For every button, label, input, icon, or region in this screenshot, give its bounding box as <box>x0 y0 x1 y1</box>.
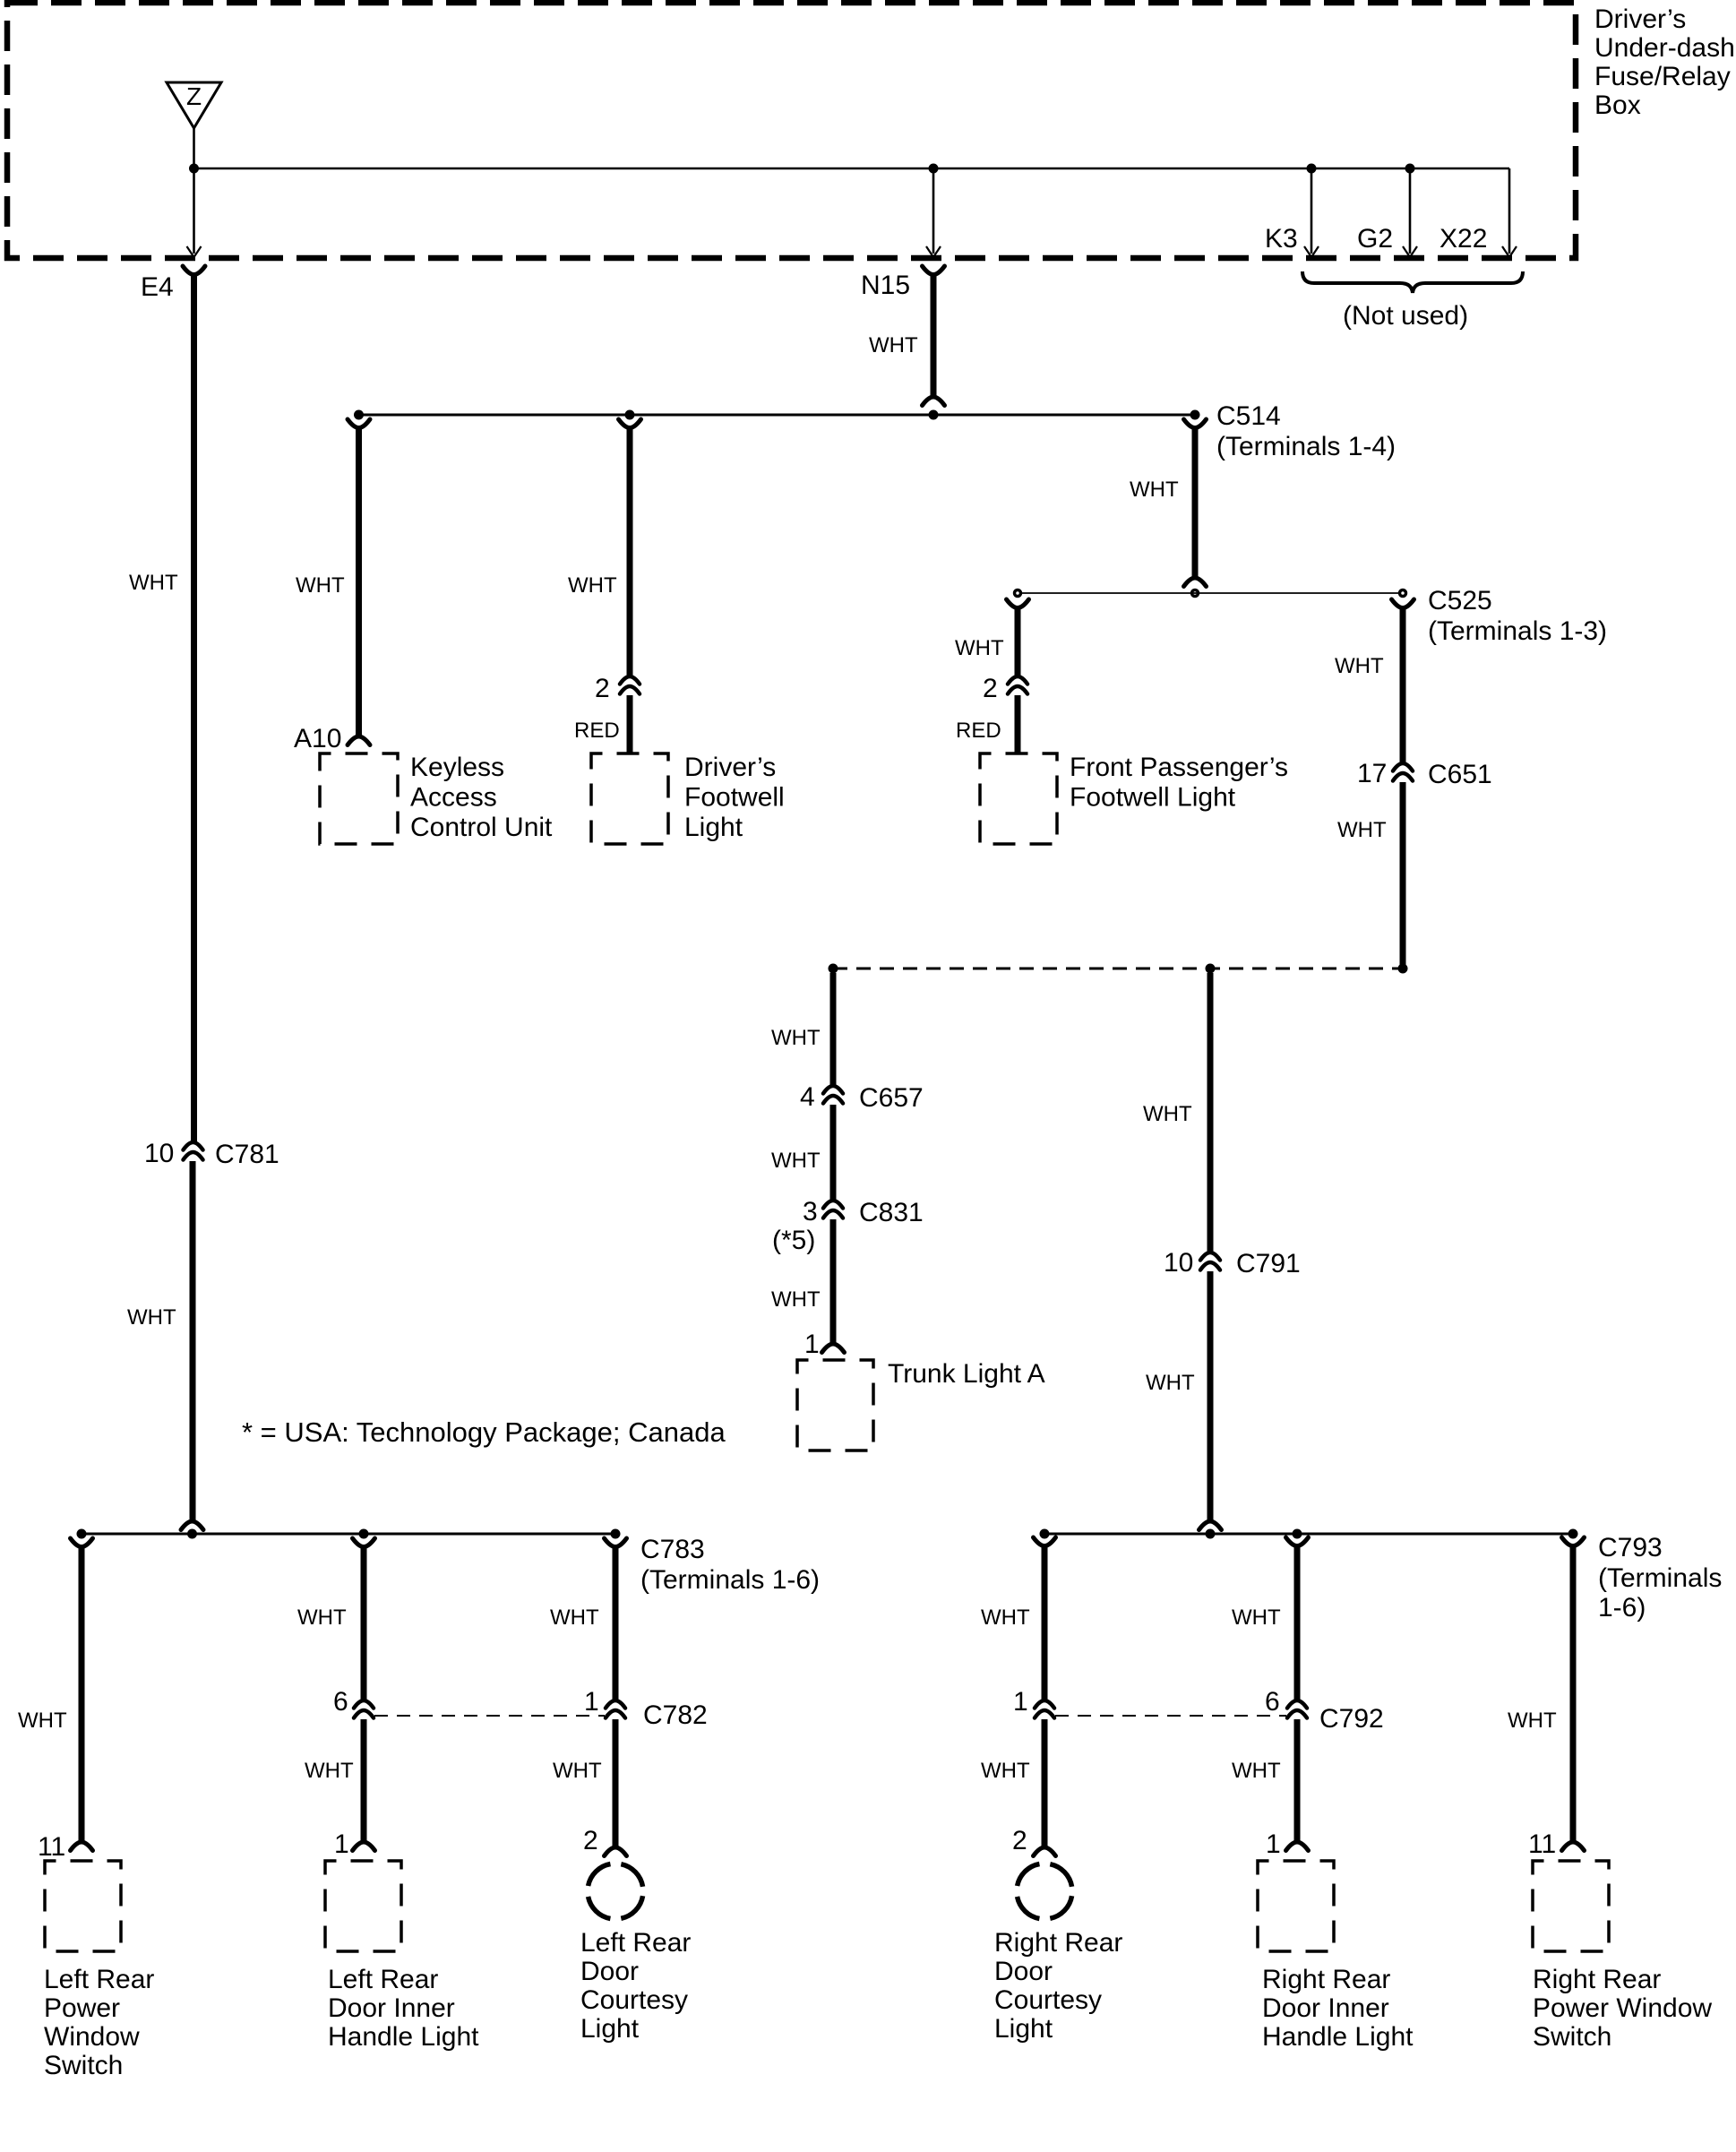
wire RRDIH upper (WHT) <box>1294 1546 1301 1700</box>
wire color label WHT (driver footwell) <box>568 573 617 598</box>
bus wire C783 <box>82 1533 615 1536</box>
svg-text:Under-dash: Under-dash <box>1594 33 1735 63</box>
svg-text:C791: C791 <box>1236 1249 1301 1278</box>
wire color label WHT (trunk 3) <box>771 1287 821 1312</box>
node: junction dot C651 at splice bus <box>1398 964 1408 974</box>
wire color label WHT (LRDC upper) <box>550 1605 599 1630</box>
pin label 2 (LRDC) <box>583 1826 598 1855</box>
svg-text:WHT: WHT <box>297 1605 347 1630</box>
component box Left Rear Power Window Switch <box>45 1861 121 1951</box>
wire color label WHT (E4 upper) <box>129 571 178 595</box>
svg-text:6: 6 <box>1265 1687 1280 1717</box>
svg-text:Light: Light <box>994 2014 1053 2044</box>
wire color label WHT (LRDIH lower) <box>305 1759 354 1783</box>
svg-text:Handle Light: Handle Light <box>1262 2022 1414 2052</box>
svg-text:* = USA: Technology Package; C: * = USA: Technology Package; Canada <box>242 1416 726 1448</box>
node: junction dot K3 drop <box>1307 164 1317 174</box>
svg-text:Switch: Switch <box>44 2051 123 2080</box>
svg-text:Access: Access <box>410 783 497 813</box>
svg-text:C651: C651 <box>1428 760 1492 789</box>
wire C651 upper (WHT) <box>1400 607 1406 763</box>
svg-text:WHT: WHT <box>1146 1371 1195 1395</box>
svg-text:RED: RED <box>956 719 1001 743</box>
wire color label WHT (trunk 2) <box>771 1149 821 1173</box>
svg-text:Control Unit: Control Unit <box>410 813 553 842</box>
svg-text:C782: C782 <box>643 1700 708 1730</box>
connector C791 pin 10 inline <box>1200 1252 1220 1270</box>
connector label C782 <box>643 1700 708 1730</box>
wire color label WHT (N15) <box>869 333 918 357</box>
pin label 1 (RRDC) <box>1013 1687 1028 1717</box>
svg-text:Door Inner: Door Inner <box>328 1993 455 2023</box>
wire C651 lower (WHT) <box>1400 782 1406 965</box>
svg-text:2: 2 <box>983 674 998 703</box>
connector C831 pin 3 inline <box>823 1201 843 1218</box>
node: junction dot N15 drop <box>929 164 939 174</box>
svg-text:1: 1 <box>804 1330 820 1359</box>
svg-text:G2: G2 <box>1357 224 1393 254</box>
wire E4 vertical (WHT) upper <box>191 275 197 1142</box>
svg-text:Driver’s: Driver’s <box>684 753 776 782</box>
connector (female) LRDIH <box>353 1538 375 1547</box>
wire color label RED (FP footwell) <box>956 719 1001 743</box>
svg-text:Footwell Light: Footwell Light <box>1070 783 1236 813</box>
pin label 2 (RRDC) <box>1012 1826 1027 1855</box>
component label Right Rear Door Courtesy Light <box>994 1928 1122 2044</box>
connector label C793 <box>1598 1533 1722 1623</box>
node: junction dot G2 drop <box>1405 164 1415 174</box>
svg-text:WHT: WHT <box>771 1287 821 1312</box>
wire RRDIH lower (WHT) <box>1294 1719 1301 1842</box>
connector C782 pin 1 inline <box>606 1700 625 1718</box>
svg-text:Power Window: Power Window <box>1533 1993 1712 2023</box>
wire keyless vertical (WHT) <box>356 428 362 736</box>
svg-text:(*5): (*5) <box>772 1226 815 1255</box>
connector at LRDIH <box>353 1842 375 1851</box>
pin label 17 (C651) <box>1357 759 1387 788</box>
node: junction dot N15 at C514 bus <box>929 410 939 420</box>
component box Left Rear Door Inner Handle Light <box>325 1861 401 1951</box>
pin label N15 <box>861 271 910 300</box>
svg-text:1: 1 <box>334 1829 349 1859</box>
fuse box (Driver's Under-dash Fuse/Relay Box) dashed outline <box>7 3 1576 258</box>
component label Left Rear Door Courtesy Light <box>580 1928 691 2044</box>
svg-text:C793: C793 <box>1598 1533 1663 1562</box>
wire color label WHT (FP footwell) <box>955 636 1004 660</box>
svg-text:(Not used): (Not used) <box>1343 301 1468 331</box>
svg-text:(Terminals: (Terminals <box>1598 1563 1722 1593</box>
bus wire inside fuse box <box>194 168 1510 170</box>
svg-text:WHT: WHT <box>127 1305 176 1330</box>
wire color label WHT (C791 upper) <box>1143 1102 1192 1126</box>
svg-text:10: 10 <box>1164 1248 1193 1278</box>
svg-text:WHT: WHT <box>1232 1605 1281 1630</box>
wire trunk 3 (WHT) <box>830 1219 837 1344</box>
connector C781 pin 10 inline <box>184 1142 203 1160</box>
svg-text:WHT: WHT <box>553 1759 602 1783</box>
wire color label WHT (C514 drop) <box>1130 478 1179 502</box>
wire RR PWS (WHT) <box>1570 1546 1577 1842</box>
svg-text:Light: Light <box>684 813 743 842</box>
node: junction dot RR door inner handle <box>1293 1529 1302 1539</box>
component box Driver's Footwell Light <box>591 753 668 844</box>
pin label 2 (FP footwell) <box>983 674 998 703</box>
connector pin 2 inline (FP footwell) <box>1008 676 1027 694</box>
pin label E4 <box>141 272 174 302</box>
connector (female) keyless branch <box>348 419 370 428</box>
lamp symbol Right Rear Door Courtesy Light <box>1017 1864 1072 1919</box>
node: junction dot RR door courtesy <box>1040 1529 1050 1539</box>
svg-text:11: 11 <box>1528 1829 1556 1859</box>
wire RRDC lower (WHT) <box>1042 1719 1048 1847</box>
svg-text:WHT: WHT <box>1143 1102 1192 1126</box>
connector label C525 <box>1428 586 1607 646</box>
node: junction dot footwell branch <box>625 410 635 420</box>
arrow into X22 <box>1502 246 1517 257</box>
wire LRDIH lower (WHT) <box>361 1719 367 1842</box>
pin label 1 (LRDIH) <box>334 1829 349 1859</box>
pin label X22 <box>1440 224 1487 254</box>
svg-text:WHT: WHT <box>771 1026 821 1050</box>
svg-text:C792: C792 <box>1319 1704 1384 1734</box>
svg-text:C783: C783 <box>640 1535 705 1564</box>
svg-text:Left Rear: Left Rear <box>44 1965 154 1994</box>
connector pin 1 inline (C792) <box>1035 1700 1054 1718</box>
wire E4 vertical (WHT) lower <box>190 1161 196 1521</box>
component label Left Rear Power Window Switch <box>44 1965 154 2080</box>
connector label C651 <box>1428 760 1492 789</box>
svg-text:WHT: WHT <box>129 571 178 595</box>
connector label C657 <box>859 1083 924 1113</box>
svg-text:2: 2 <box>1012 1826 1027 1855</box>
pin label A10 <box>294 724 341 753</box>
arrow into E4 <box>187 246 202 257</box>
connector label C514 <box>1216 401 1396 461</box>
wire color label WHT (LRDC lower) <box>553 1759 602 1783</box>
svg-text:Courtesy: Courtesy <box>994 1985 1102 2015</box>
wire color label WHT (RRDC upper) <box>981 1605 1030 1630</box>
wire from Z down to E4 exit <box>193 128 195 254</box>
connector label C791 <box>1236 1249 1301 1278</box>
node: ring junction at C525 mid <box>1192 590 1199 597</box>
svg-text:WHT: WHT <box>1232 1759 1281 1783</box>
node: junction dot E4 at C783 bus <box>187 1529 197 1539</box>
pin label 10 (C791) <box>1164 1248 1193 1278</box>
component box Right Rear Door Inner Handle Light <box>1258 1861 1334 1951</box>
connector at RR PWS <box>1562 1842 1585 1851</box>
pin label 11 (RR PWS) <box>1528 1829 1556 1859</box>
pin label 4 (C657) <box>800 1082 815 1112</box>
svg-text:K3: K3 <box>1265 224 1298 254</box>
wire LRDIH upper (WHT) <box>361 1547 367 1700</box>
wire trunk 1 (WHT) <box>830 973 837 1086</box>
connector (female) FP footwell branch <box>1007 599 1029 608</box>
connector at keyless access control unit <box>348 736 370 745</box>
connector N15 (female) at fuse box exit <box>923 266 945 275</box>
wire LRDC lower (WHT) <box>613 1719 619 1847</box>
arrow into K3 <box>1304 246 1319 257</box>
svg-text:WHT: WHT <box>1337 818 1387 842</box>
svg-text:A10: A10 <box>294 724 341 753</box>
connector C792 pin 6 inline <box>1287 1700 1307 1718</box>
label (Not used) <box>1343 301 1468 331</box>
component label Driver's Footwell Light <box>684 753 785 842</box>
component box Keyless Access Control Unit <box>320 753 398 844</box>
wire C514 to C525 (WHT) <box>1192 428 1199 578</box>
svg-text:Box: Box <box>1594 90 1641 120</box>
svg-text:1: 1 <box>584 1687 599 1717</box>
svg-text:Trunk Light A: Trunk Light A <box>888 1359 1045 1389</box>
svg-text:C657: C657 <box>859 1083 924 1113</box>
connector (female) RR PWS <box>1562 1537 1585 1546</box>
svg-text:WHT: WHT <box>1335 654 1384 678</box>
wire N15 vertical (WHT) <box>931 275 937 397</box>
node: junction dot RR power window switch <box>1568 1529 1578 1539</box>
bus wire C525 <box>1018 592 1403 594</box>
bus wire C793 <box>1044 1533 1573 1536</box>
svg-text:2: 2 <box>583 1826 598 1855</box>
connector at RRDIH <box>1286 1842 1309 1851</box>
pin label G2 <box>1357 224 1393 254</box>
svg-text:N15: N15 <box>861 271 910 300</box>
svg-text:Door: Door <box>580 1957 639 1986</box>
wire color label RED (driver footwell) <box>574 719 620 743</box>
wire color label WHT (LRDIH upper) <box>297 1605 347 1630</box>
connector label C792 <box>1319 1704 1384 1734</box>
wire color label WHT (RRDC lower) <box>981 1759 1030 1783</box>
wire color label WHT (C791 lower) <box>1146 1371 1195 1395</box>
node: ring junction C525 right <box>1400 590 1406 597</box>
wire RRDC upper (WHT) <box>1042 1546 1048 1700</box>
connector (female) LR PWS <box>71 1538 93 1547</box>
svg-text:4: 4 <box>800 1082 815 1112</box>
connector label C783 <box>640 1535 820 1595</box>
wire color label WHT (C651 upper) <box>1335 654 1384 678</box>
pin label 1 (LRDC) <box>584 1687 599 1717</box>
bus wire to C514 <box>358 414 1195 417</box>
connector (female) RRDIH <box>1286 1537 1309 1546</box>
component box Right Rear Power Window Switch <box>1533 1861 1609 1951</box>
svg-text:X22: X22 <box>1440 224 1487 254</box>
connector at C525 bus <box>1184 578 1207 587</box>
connector (female) RRDC <box>1034 1537 1056 1546</box>
svg-text:(Terminals 1-3): (Terminals 1-3) <box>1428 616 1607 646</box>
svg-text:11: 11 <box>38 1832 65 1862</box>
svg-text:Keyless: Keyless <box>410 753 504 782</box>
wire color label WHT (RR PWS) <box>1508 1709 1557 1733</box>
svg-text:C831: C831 <box>859 1198 924 1227</box>
svg-text:WHT: WHT <box>18 1709 67 1733</box>
svg-text:Window: Window <box>44 2022 140 2052</box>
connector at C783 junction (E4 wire end) <box>181 1521 203 1530</box>
svg-text:3: 3 <box>803 1197 818 1227</box>
footnote <box>242 1416 726 1448</box>
svg-text:(Terminals 1-6): (Terminals 1-6) <box>640 1565 820 1595</box>
svg-text:WHT: WHT <box>955 636 1004 660</box>
component label Keyless Access Control Unit <box>410 753 553 842</box>
svg-text:1: 1 <box>1266 1829 1281 1859</box>
node: junction dot C791 at C793 bus <box>1206 1529 1216 1539</box>
node: junction dot LR power window switch <box>77 1529 87 1539</box>
node: junction dot LR door inner handle <box>359 1529 369 1539</box>
svg-text:Right Rear: Right Rear <box>1262 1965 1390 1994</box>
svg-text:WHT: WHT <box>296 573 345 598</box>
svg-text:Light: Light <box>580 2014 640 2044</box>
connector label C781 <box>215 1140 279 1169</box>
svg-text:E4: E4 <box>141 272 174 302</box>
wire footwell lower (RED) <box>627 695 633 753</box>
wire LR PWS (WHT) <box>79 1547 85 1842</box>
connector pin 6 inline (C782) <box>354 1700 374 1718</box>
svg-text:Handle Light: Handle Light <box>328 2022 479 2052</box>
lamp symbol Left Rear Door Courtesy Light <box>588 1864 643 1919</box>
wire FP footwell lower (RED) <box>1015 695 1021 753</box>
svg-text:10: 10 <box>144 1139 174 1168</box>
svg-text:WHT: WHT <box>305 1759 354 1783</box>
connector C657 pin 4 inline <box>823 1086 843 1104</box>
connector (female) LRDC <box>605 1538 627 1547</box>
connector E4 (female) at fuse box exit <box>183 266 205 275</box>
wire N15 drop <box>932 168 935 254</box>
link wire C782 (dashed) <box>374 1715 605 1717</box>
svg-text:Courtesy: Courtesy <box>580 1985 688 2015</box>
connector at RRDC <box>1034 1847 1056 1856</box>
svg-text:Fuse/Relay: Fuse/Relay <box>1594 62 1731 91</box>
pin label 6 (LRDIH) <box>333 1687 348 1717</box>
svg-text:1: 1 <box>1013 1687 1028 1717</box>
svg-text:(Terminals 1-4): (Terminals 1-4) <box>1216 432 1396 461</box>
component box Front Passenger's Footwell Light <box>980 753 1057 844</box>
svg-text:Front Passenger’s: Front Passenger’s <box>1070 753 1288 782</box>
wire C791 lower (WHT) <box>1207 1271 1214 1521</box>
svg-text:1-6): 1-6) <box>1598 1593 1646 1623</box>
connector (female) C514 drop <box>1184 419 1207 428</box>
connector pin 2 inline (driver footwell) <box>620 676 640 694</box>
wire color label WHT (RRDIH upper) <box>1232 1605 1281 1630</box>
component box Trunk Light A <box>797 1360 873 1450</box>
svg-text:Z: Z <box>186 82 202 110</box>
component label Trunk Light A <box>888 1359 1045 1389</box>
ground symbol Z (triangle) <box>167 82 221 128</box>
svg-text:2: 2 <box>595 674 610 703</box>
svg-text:C525: C525 <box>1428 586 1492 615</box>
svg-text:Left Rear: Left Rear <box>580 1928 691 1958</box>
connector at trunk light <box>822 1344 845 1353</box>
wire color label WHT (E4 lower) <box>127 1305 176 1330</box>
node: junction dot keyless branch <box>354 410 364 420</box>
link wire C792 (dashed) <box>1055 1715 1286 1717</box>
svg-text:Footwell: Footwell <box>684 783 785 813</box>
brace for not-used pins <box>1302 271 1523 293</box>
connector C651 pin 17 inline <box>1393 763 1413 781</box>
connector label C831 <box>859 1198 924 1227</box>
node: ring junction C525 left <box>1015 590 1021 597</box>
node: junction dot LR door courtesy <box>611 1529 621 1539</box>
connector at LR PWS <box>71 1842 93 1851</box>
pin label K3 <box>1265 224 1298 254</box>
wire LRDC upper (WHT) <box>613 1547 619 1700</box>
svg-text:WHT: WHT <box>1508 1709 1557 1733</box>
svg-text:Power: Power <box>44 1993 120 2023</box>
wire trunk 2 (WHT) <box>830 1105 837 1201</box>
node: junction dot C791 branch <box>1206 964 1216 974</box>
wire footwell upper (WHT) <box>627 428 633 676</box>
connector (female) footwell branch <box>619 419 641 428</box>
svg-text:WHT: WHT <box>981 1605 1030 1630</box>
label (*5) <box>772 1226 815 1255</box>
pin label 6 (RRDIH) <box>1265 1687 1280 1717</box>
connector (female) C651 branch <box>1392 599 1414 608</box>
svg-text:Right Rear: Right Rear <box>1533 1965 1661 1994</box>
node: junction dot C514 branch <box>1190 410 1200 420</box>
svg-text:Switch: Switch <box>1533 2022 1611 2052</box>
svg-text:C514: C514 <box>1216 401 1281 431</box>
component label Right Rear Door Inner Handle Light <box>1262 1965 1414 2052</box>
svg-text:RED: RED <box>574 719 620 743</box>
wire K3 drop <box>1311 168 1313 254</box>
wire color label WHT (keyless) <box>296 573 345 598</box>
wire FP footwell upper (WHT) <box>1015 607 1021 676</box>
component label Left Rear Door Inner Handle Light <box>328 1965 479 2052</box>
component label Right Rear Power Window Switch <box>1533 1965 1712 2052</box>
wire C791 upper (WHT) <box>1207 973 1214 1252</box>
wire color label WHT (trunk 1) <box>771 1026 821 1050</box>
svg-text:Driver’s: Driver’s <box>1594 4 1686 34</box>
splice bus (dashed) <box>833 968 1403 970</box>
svg-text:WHT: WHT <box>568 573 617 598</box>
arrow into N15 <box>926 246 941 257</box>
svg-text:17: 17 <box>1357 759 1387 788</box>
svg-text:Door Inner: Door Inner <box>1262 1993 1389 2023</box>
fuse box label <box>1594 4 1735 120</box>
connector at C514 bus (N15 wire end) <box>923 397 945 406</box>
wire color label WHT (LR PWS) <box>18 1709 67 1733</box>
svg-text:WHT: WHT <box>1130 478 1179 502</box>
wire X22 drop <box>1508 168 1511 254</box>
pin label 2 (driver footwell) <box>595 674 610 703</box>
arrow into G2 <box>1403 246 1417 257</box>
wire color label WHT (RRDIH lower) <box>1232 1759 1281 1783</box>
connector at LRDC <box>605 1847 627 1856</box>
svg-text:WHT: WHT <box>771 1149 821 1173</box>
svg-text:WHT: WHT <box>981 1759 1030 1783</box>
svg-text:Right Rear: Right Rear <box>994 1928 1122 1958</box>
svg-text:WHT: WHT <box>869 333 918 357</box>
svg-text:Left Rear: Left Rear <box>328 1965 438 1994</box>
svg-text:Door: Door <box>994 1957 1053 1986</box>
node: junction dot at Z bus <box>189 164 199 174</box>
wire G2 drop <box>1409 168 1412 254</box>
svg-text:C781: C781 <box>215 1140 279 1169</box>
wire color label WHT (C651 lower) <box>1337 818 1387 842</box>
node: junction dot trunk branch <box>829 964 838 974</box>
svg-text:6: 6 <box>333 1687 348 1717</box>
pin label 1 (RRDIH) <box>1266 1829 1281 1859</box>
pin label 1 (trunk light) <box>804 1330 820 1359</box>
pin label 10 (C781) <box>144 1139 174 1168</box>
component label Front Passenger's Footwell Light <box>1070 753 1288 813</box>
pin label 11 (LR PWS) <box>38 1832 65 1862</box>
pin label 3 (C831) <box>803 1197 818 1227</box>
svg-text:WHT: WHT <box>550 1605 599 1630</box>
connector at C793 bus (C791 wire end) <box>1199 1521 1222 1530</box>
